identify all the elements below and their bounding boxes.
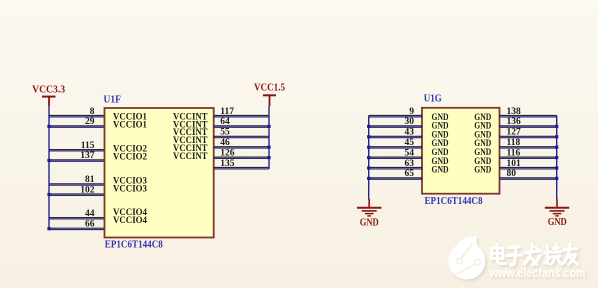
svg-text:102: 102: [80, 185, 95, 195]
svg-text:54: 54: [405, 148, 415, 158]
wire U1F right pin 55: [214, 136, 270, 137]
svg-text:VCC1.5: VCC1.5: [254, 82, 285, 93]
junction on VCC3.3 bus at y=228.7: [47, 227, 50, 230]
junction on VCC3.3 bus at y=194.5: [47, 193, 50, 196]
junction on VCC3.3 bus at y=126.4: [47, 125, 50, 128]
svg-text:64: 64: [220, 117, 230, 127]
svg-text:55: 55: [220, 128, 230, 138]
wire U1F left pin 44: [49, 218, 105, 219]
IC U1G body: [422, 108, 500, 194]
junction on right ground bus at y=147.2: [555, 146, 558, 149]
svg-text:U1G: U1G: [424, 94, 442, 105]
svg-text:9: 9: [409, 107, 414, 117]
wire U1F right pin 126: [214, 157, 270, 158]
svg-text:135: 135: [220, 159, 235, 169]
svg-text:EP1C6T144C8: EP1C6T144C8: [425, 196, 483, 207]
wire U1F left pin 102: [49, 194, 105, 195]
svg-text:81: 81: [85, 175, 95, 185]
wire U1G right pin 136: [500, 126, 557, 127]
wire VCC1.5 vertical bus: [268, 106, 270, 169]
wire U1F right pin 135: [214, 168, 270, 169]
junction on left ground bus at y=126.4: [367, 125, 370, 128]
svg-text:www.elecfans.com: www.elecfans.com: [489, 266, 586, 280]
wire U1G left pin 30: [369, 126, 423, 127]
junction on VCC3.3 bus at y=160.4: [47, 159, 50, 162]
ground symbol right (U1G): [545, 199, 569, 216]
junction on right ground bus at y=126.4: [555, 125, 558, 128]
junction on right ground bus at y=178.4: [555, 177, 558, 180]
wire U1G left pin 54: [369, 157, 423, 158]
svg-text:EP1C6T144C8: EP1C6T144C8: [105, 240, 163, 251]
svg-text:127: 127: [507, 128, 522, 138]
junction on left ground bus at y=147.2: [367, 146, 370, 149]
svg-text:137: 137: [80, 151, 95, 161]
wire U1F left pin 137: [49, 160, 105, 161]
svg-text:VCCIO4: VCCIO4: [113, 215, 147, 225]
wire U1G right ground bus: [556, 116, 558, 200]
wire U1F left pin 115: [49, 150, 105, 151]
wire U1F right pin 64: [214, 126, 270, 127]
wire U1G left pin 43: [369, 136, 423, 137]
svg-text:GND: GND: [548, 217, 567, 228]
wire U1F left pin 66: [49, 228, 105, 229]
wire U1G left pin 63: [369, 168, 423, 169]
svg-text:115: 115: [81, 141, 95, 151]
svg-text:8: 8: [90, 107, 95, 117]
svg-text:VCC3.3: VCC3.3: [32, 85, 65, 96]
svg-text:GND: GND: [360, 217, 379, 228]
wire U1G right pin 80: [500, 178, 557, 179]
svg-text:29: 29: [85, 117, 95, 127]
ground symbol left (U1G): [357, 199, 381, 216]
wire U1F right pin 117: [214, 116, 270, 117]
wire U1G right pin 101: [500, 168, 557, 169]
svg-text:117: 117: [220, 107, 234, 117]
wire U1F left pin 81: [49, 184, 105, 185]
svg-text:45: 45: [405, 138, 415, 148]
wire U1F left pin 29: [49, 126, 105, 127]
IC U1F body: [105, 108, 214, 238]
svg-text:VCCINT: VCCINT: [173, 151, 208, 161]
junction on left ground bus at y=178.4: [367, 177, 370, 180]
svg-text:101: 101: [507, 159, 522, 169]
wire U1G left pin 65: [369, 178, 423, 179]
svg-text:VCCIO2: VCCIO2: [113, 152, 147, 162]
svg-text:U1F: U1F: [104, 95, 122, 106]
junction on left ground bus at y=157.6: [367, 156, 370, 159]
svg-text:80: 80: [507, 169, 517, 179]
wire U1G right pin 138: [500, 116, 557, 117]
svg-text:65: 65: [405, 169, 415, 179]
wire U1G left ground bus: [368, 116, 370, 200]
wire U1F right pin 46: [214, 147, 270, 148]
junction on VCC1.5 bus at y=157.6: [267, 156, 270, 159]
wire U1F left pin 8: [49, 116, 105, 117]
svg-text:VCCIO3: VCCIO3: [113, 184, 147, 194]
power symbol VCC1.5: [263, 95, 276, 106]
power symbol VCC3.3: [42, 97, 56, 106]
junction on VCC1.5 bus at y=147.2: [267, 146, 270, 149]
svg-text:116: 116: [507, 148, 521, 158]
wire VCC3.3 vertical bus: [48, 106, 50, 229]
wire U1G right pin 127: [500, 136, 557, 137]
svg-text:30: 30: [405, 117, 415, 127]
svg-text:136: 136: [507, 117, 522, 127]
svg-text:43: 43: [405, 128, 415, 138]
svg-text:GND: GND: [474, 164, 491, 174]
elecfans watermark logo: [448, 236, 585, 280]
junction on left ground bus at y=168: [367, 166, 370, 169]
svg-text:44: 44: [85, 209, 95, 219]
svg-text:138: 138: [507, 107, 522, 117]
svg-text:46: 46: [220, 138, 230, 148]
svg-text:VCCIO1: VCCIO1: [113, 120, 147, 130]
junction on right ground bus at y=168: [555, 166, 558, 169]
svg-text:118: 118: [507, 138, 521, 148]
wire U1G left pin 45: [369, 147, 423, 148]
junction on left ground bus at y=136.8: [367, 135, 370, 138]
watermark leaf circle icon: [448, 236, 485, 279]
wire U1G right pin 118: [500, 147, 557, 148]
svg-text:126: 126: [220, 148, 235, 158]
watermark chinese characters: [492, 245, 578, 266]
junction on right ground bus at y=136.8: [555, 135, 558, 138]
junction on VCC1.5 bus at y=126.4: [267, 125, 270, 128]
svg-text:GND: GND: [432, 164, 449, 174]
wire U1G right pin 116: [500, 157, 557, 158]
junction on right ground bus at y=157.6: [555, 156, 558, 159]
svg-text:66: 66: [85, 220, 95, 230]
wire U1G left pin 9: [369, 116, 423, 117]
svg-text:63: 63: [405, 159, 415, 169]
